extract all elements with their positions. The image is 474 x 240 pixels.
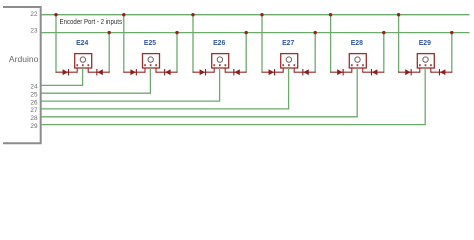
wire net N23 drop to E24 right diode (108, 33, 110, 73)
svg-text:22: 22 (30, 11, 38, 18)
svg-text:E25: E25 (144, 38, 156, 47)
wire net N22 drop to E29 left diode (398, 15, 400, 73)
junction net N23 / E26 (245, 31, 248, 34)
svg-text:23: 23 (30, 27, 38, 34)
diode D25B (right, anode to net 23) (156, 69, 177, 75)
wire net N22 drop to E24 left diode (55, 15, 57, 73)
encoder E28 (349, 54, 366, 73)
wire E24 common to arduino pin 24 (41, 68, 82, 85)
junction net N22 / E28 (329, 13, 332, 16)
wire net N23 drop to E27 right diode (314, 33, 316, 73)
encoder E27 (281, 54, 298, 73)
diode D25A (left, anode to net 22) (123, 69, 145, 75)
diode D29B (right, anode to net 23) (431, 69, 452, 75)
arduino module U1 (partial outline) (3, 7, 41, 143)
svg-text:Encoder Port - 2 inputs: Encoder Port - 2 inputs (60, 19, 123, 26)
svg-text:E27: E27 (282, 38, 294, 47)
wire net N22 drop to E27 left diode (261, 15, 263, 73)
diode D27B (right, anode to net 23) (294, 69, 315, 75)
junction net N22 / E27 (260, 13, 263, 16)
svg-text:Arduino: Arduino (9, 54, 39, 64)
svg-text:E26: E26 (213, 38, 225, 47)
diode D26A (left, anode to net 22) (193, 69, 215, 75)
wire net N23 drop to E26 right diode (245, 33, 247, 73)
wire E26 common to arduino pin 26 (41, 68, 219, 101)
wire E29 common to arduino pin 29 (41, 68, 425, 125)
diode D27A (left, anode to net 22) (262, 69, 284, 75)
svg-text:E28: E28 (351, 38, 363, 47)
diode D28A (left, anode to net 22) (330, 69, 352, 75)
diode D28B (right, anode to net 23) (363, 69, 384, 75)
diode D29A (left, anode to net 22) (398, 69, 420, 75)
wire E25 common to arduino pin 25 (41, 68, 150, 93)
junction net N22 / E25 (122, 13, 125, 16)
wire net N23 drop to E28 right diode (383, 33, 385, 73)
svg-text:E24: E24 (76, 38, 88, 47)
encoder E25 (143, 54, 160, 73)
diode D24B (right, anode to net 23) (88, 69, 109, 75)
junction net N22 / E24 (54, 13, 57, 16)
junction net N22 / E26 (191, 13, 194, 16)
junction net N22 / E29 (397, 13, 400, 16)
wire net N22 drop to E25 left diode (123, 15, 125, 73)
wire net N23 drop to E25 right diode (176, 33, 178, 73)
diode D26B (right, anode to net 23) (225, 69, 246, 75)
svg-text:E29: E29 (419, 38, 431, 47)
svg-text:29: 29 (30, 123, 38, 130)
junction net N23 / E28 (382, 31, 385, 34)
wire E27 common to arduino pin 27 (41, 68, 288, 109)
wire net N23 horizontal bus from pin 23 (41, 32, 469, 34)
diode D24A (left, anode to net 22) (56, 69, 78, 75)
junction net N23 / E29 (450, 31, 453, 34)
wire net N22 horizontal bus from pin 22 (41, 14, 469, 16)
svg-text:24: 24 (30, 84, 38, 91)
svg-text:25: 25 (30, 91, 38, 98)
svg-text:27: 27 (30, 107, 38, 114)
encoder E24 (75, 54, 92, 73)
wire net N22 drop to E26 left diode (192, 15, 194, 73)
wire net N23 drop to E29 right diode (451, 33, 453, 73)
svg-text:26: 26 (30, 99, 38, 106)
junction net N23 / E27 (314, 31, 317, 34)
junction net N23 / E25 (175, 31, 178, 34)
wire net N22 drop to E28 left diode (330, 15, 332, 73)
encoder E26 (212, 54, 229, 73)
svg-text:28: 28 (30, 115, 38, 122)
junction net N23 / E24 (108, 31, 111, 34)
wire E28 common to arduino pin 28 (41, 68, 357, 117)
encoder E29 (417, 54, 434, 73)
